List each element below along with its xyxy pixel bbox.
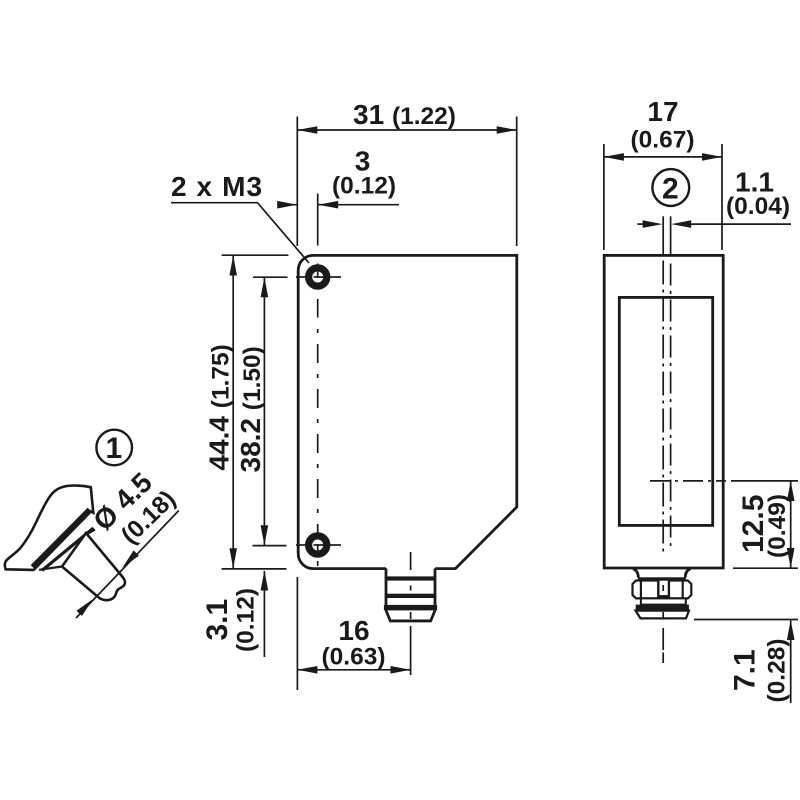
mounting clip lamination band thin — [42, 528, 94, 571]
dimension 17 (0.67) top right — [604, 96, 722, 250]
label 2 x M3 with leader — [171, 171, 309, 263]
mounting clip base plate — [36, 528, 97, 572]
mounting clip bracket hump — [5, 485, 93, 569]
side view housing — [604, 255, 723, 568]
svg-text:3.1: 3.1 — [201, 599, 234, 641]
dimension 31 (1.22) top — [297, 99, 516, 246]
front connector centerline — [410, 552, 412, 675]
svg-text:16: 16 — [338, 615, 369, 646]
svg-text:38.2 (1.50): 38.2 (1.50) — [235, 346, 266, 472]
svg-text:44.4 (1.75): 44.4 (1.75) — [204, 344, 235, 470]
svg-text:(0.04): (0.04) — [726, 193, 790, 220]
side view centerline A (housing center) — [662, 216, 664, 663]
svg-text:1: 1 — [105, 432, 122, 465]
mounting hole bottom (M3) — [296, 536, 341, 558]
front view housing outline — [298, 255, 517, 568]
front view connector stub — [384, 568, 437, 621]
item reference 2 circled — [652, 169, 689, 206]
dimension 16 (0.63) bottom — [297, 577, 410, 690]
mounting hole top (M3) — [296, 264, 341, 287]
item reference 1 circled — [96, 430, 132, 466]
svg-text:17: 17 — [647, 96, 678, 127]
svg-text:(0.63): (0.63) — [321, 644, 385, 671]
svg-text:2: 2 — [662, 173, 679, 206]
dimension 3.1 (0.12) bottom left — [201, 569, 287, 657]
side view connector (M8 plug) — [633, 569, 692, 619]
svg-text:(0.28): (0.28) — [764, 638, 791, 702]
dimension 7.1 (0.28) bottom right — [694, 620, 798, 704]
svg-text:7.1: 7.1 — [729, 649, 762, 691]
svg-text:(0.67): (0.67) — [630, 127, 694, 154]
label diameter 4.5 (0.18) — [76, 467, 181, 618]
dimension 44.4 (1.75) left — [204, 255, 289, 568]
dimension 12.5 (0.49) right — [733, 481, 798, 568]
side view optical window — [619, 297, 712, 525]
front view vertical centerline through holes — [317, 194, 319, 567]
mounting clip lamination band thick — [33, 510, 90, 567]
dimension 38.2 (1.50) left — [235, 277, 288, 545]
svg-text:(0.12): (0.12) — [332, 173, 396, 200]
dimension 1.1 (0.04) — [637, 167, 791, 228]
side connector centerline stubs — [662, 585, 664, 618]
svg-text:31 (1.22): 31 (1.22) — [353, 99, 456, 130]
mounting clip stud — [62, 533, 125, 600]
svg-text:(0.12): (0.12) — [233, 588, 260, 652]
side view centerline B (offset axis) — [670, 216, 672, 546]
svg-text:2 x M3: 2 x M3 — [171, 171, 263, 202]
svg-text:(0.49): (0.49) — [764, 494, 791, 558]
optical axis horizontal centerline — [650, 480, 798, 482]
dimension 3 (0.12) top — [277, 146, 399, 209]
